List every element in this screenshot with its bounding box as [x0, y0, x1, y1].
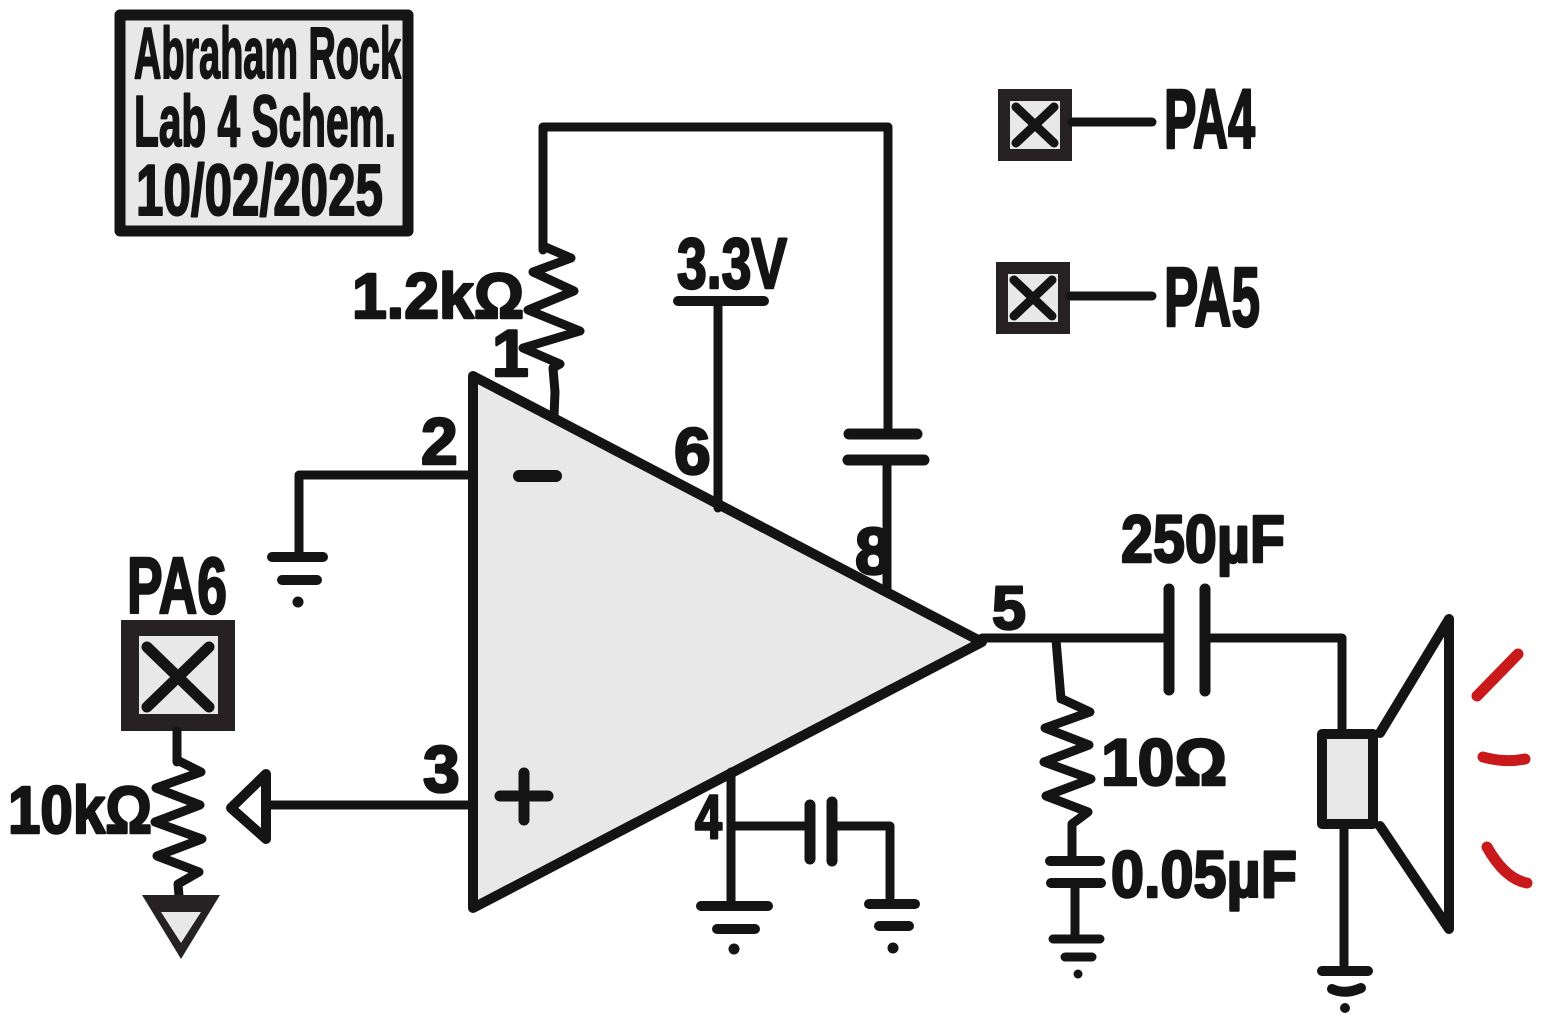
capacitor C3 250µF: [1169, 589, 1205, 691]
svg-text:PA5: PA5: [1164, 250, 1260, 344]
wire C3 to speaker: [1209, 638, 1342, 729]
speaker LS1: [1322, 619, 1449, 929]
ground (pin 4): [701, 906, 768, 929]
op-amp U1: [473, 376, 982, 908]
ground (speaker): [1322, 971, 1368, 992]
svg-text:1: 1: [492, 316, 529, 390]
wire output pin 5: [982, 634, 1163, 643]
wire PA5: [1070, 292, 1152, 301]
wire PA4: [1072, 118, 1152, 127]
svg-text:PA6: PA6: [127, 541, 227, 630]
ground (C4): [1053, 939, 1100, 957]
svg-text:10kΩ: 10kΩ: [8, 773, 152, 848]
wire C4 to ground: [1071, 886, 1080, 934]
resistor R1 1.2kΩ: [523, 246, 580, 416]
svg-text:4: 4: [695, 783, 722, 852]
svg-text:Lab 4 Schem.: Lab 4 Schem.: [134, 82, 396, 162]
title box: [120, 14, 408, 231]
red sound wave mark top: [1477, 654, 1518, 696]
ground (C2): [869, 904, 915, 926]
potentiometer wiper arrow: [231, 774, 266, 839]
svg-text:10/02/2025: 10/02/2025: [136, 151, 383, 231]
pad PA6: [121, 620, 235, 731]
svg-text:3: 3: [423, 732, 460, 806]
pad PA5: [996, 262, 1070, 334]
wire pin 4 to C2: [731, 822, 806, 831]
capacitor C1 (pin 8 bypass): [848, 434, 924, 460]
svg-text:6: 6: [674, 414, 711, 488]
svg-text:10Ω: 10Ω: [1101, 725, 1227, 799]
wire pin 3 to wiper: [268, 801, 469, 810]
wire pin 2 to ground: [299, 475, 469, 552]
wire speaker to ground: [1340, 828, 1349, 965]
wire pin 4 to ground: [727, 772, 736, 901]
wire R3 to C4: [1068, 827, 1077, 858]
svg-text:5: 5: [992, 574, 1026, 642]
svg-text:250µF: 250µF: [1121, 502, 1285, 577]
capacitor C2: [810, 802, 832, 861]
svg-text:3.3V: 3.3V: [677, 225, 787, 304]
wire 3.3V to pin 6: [714, 303, 723, 508]
red sound wave mark bottom: [1487, 847, 1527, 883]
resistor R3 10Ω: [1044, 699, 1091, 830]
wire output junction to R3: [1056, 640, 1061, 699]
svg-text:2: 2: [421, 404, 458, 478]
red sound wave mark middle: [1483, 757, 1525, 761]
plus symbol (non-inverting input): [500, 773, 548, 820]
3.3V supply bar: [678, 296, 764, 306]
ground (pin 2): [272, 557, 323, 580]
resistor R2 10kΩ: [155, 760, 202, 896]
capacitor C4 0.05µF: [1050, 861, 1101, 883]
ground arrow below R2: [142, 895, 220, 959]
svg-text:8: 8: [855, 514, 892, 588]
svg-text:0.05µF: 0.05µF: [1111, 837, 1297, 911]
wire PA6 to R2: [173, 731, 182, 762]
wire C1 to pin 8: [883, 464, 892, 590]
pad PA4: [998, 89, 1072, 161]
wire C2 to ground: [836, 826, 890, 898]
minus symbol (inverting input): [519, 470, 556, 482]
svg-text:PA4: PA4: [1164, 72, 1255, 166]
wire feedback loop top: [543, 127, 888, 428]
